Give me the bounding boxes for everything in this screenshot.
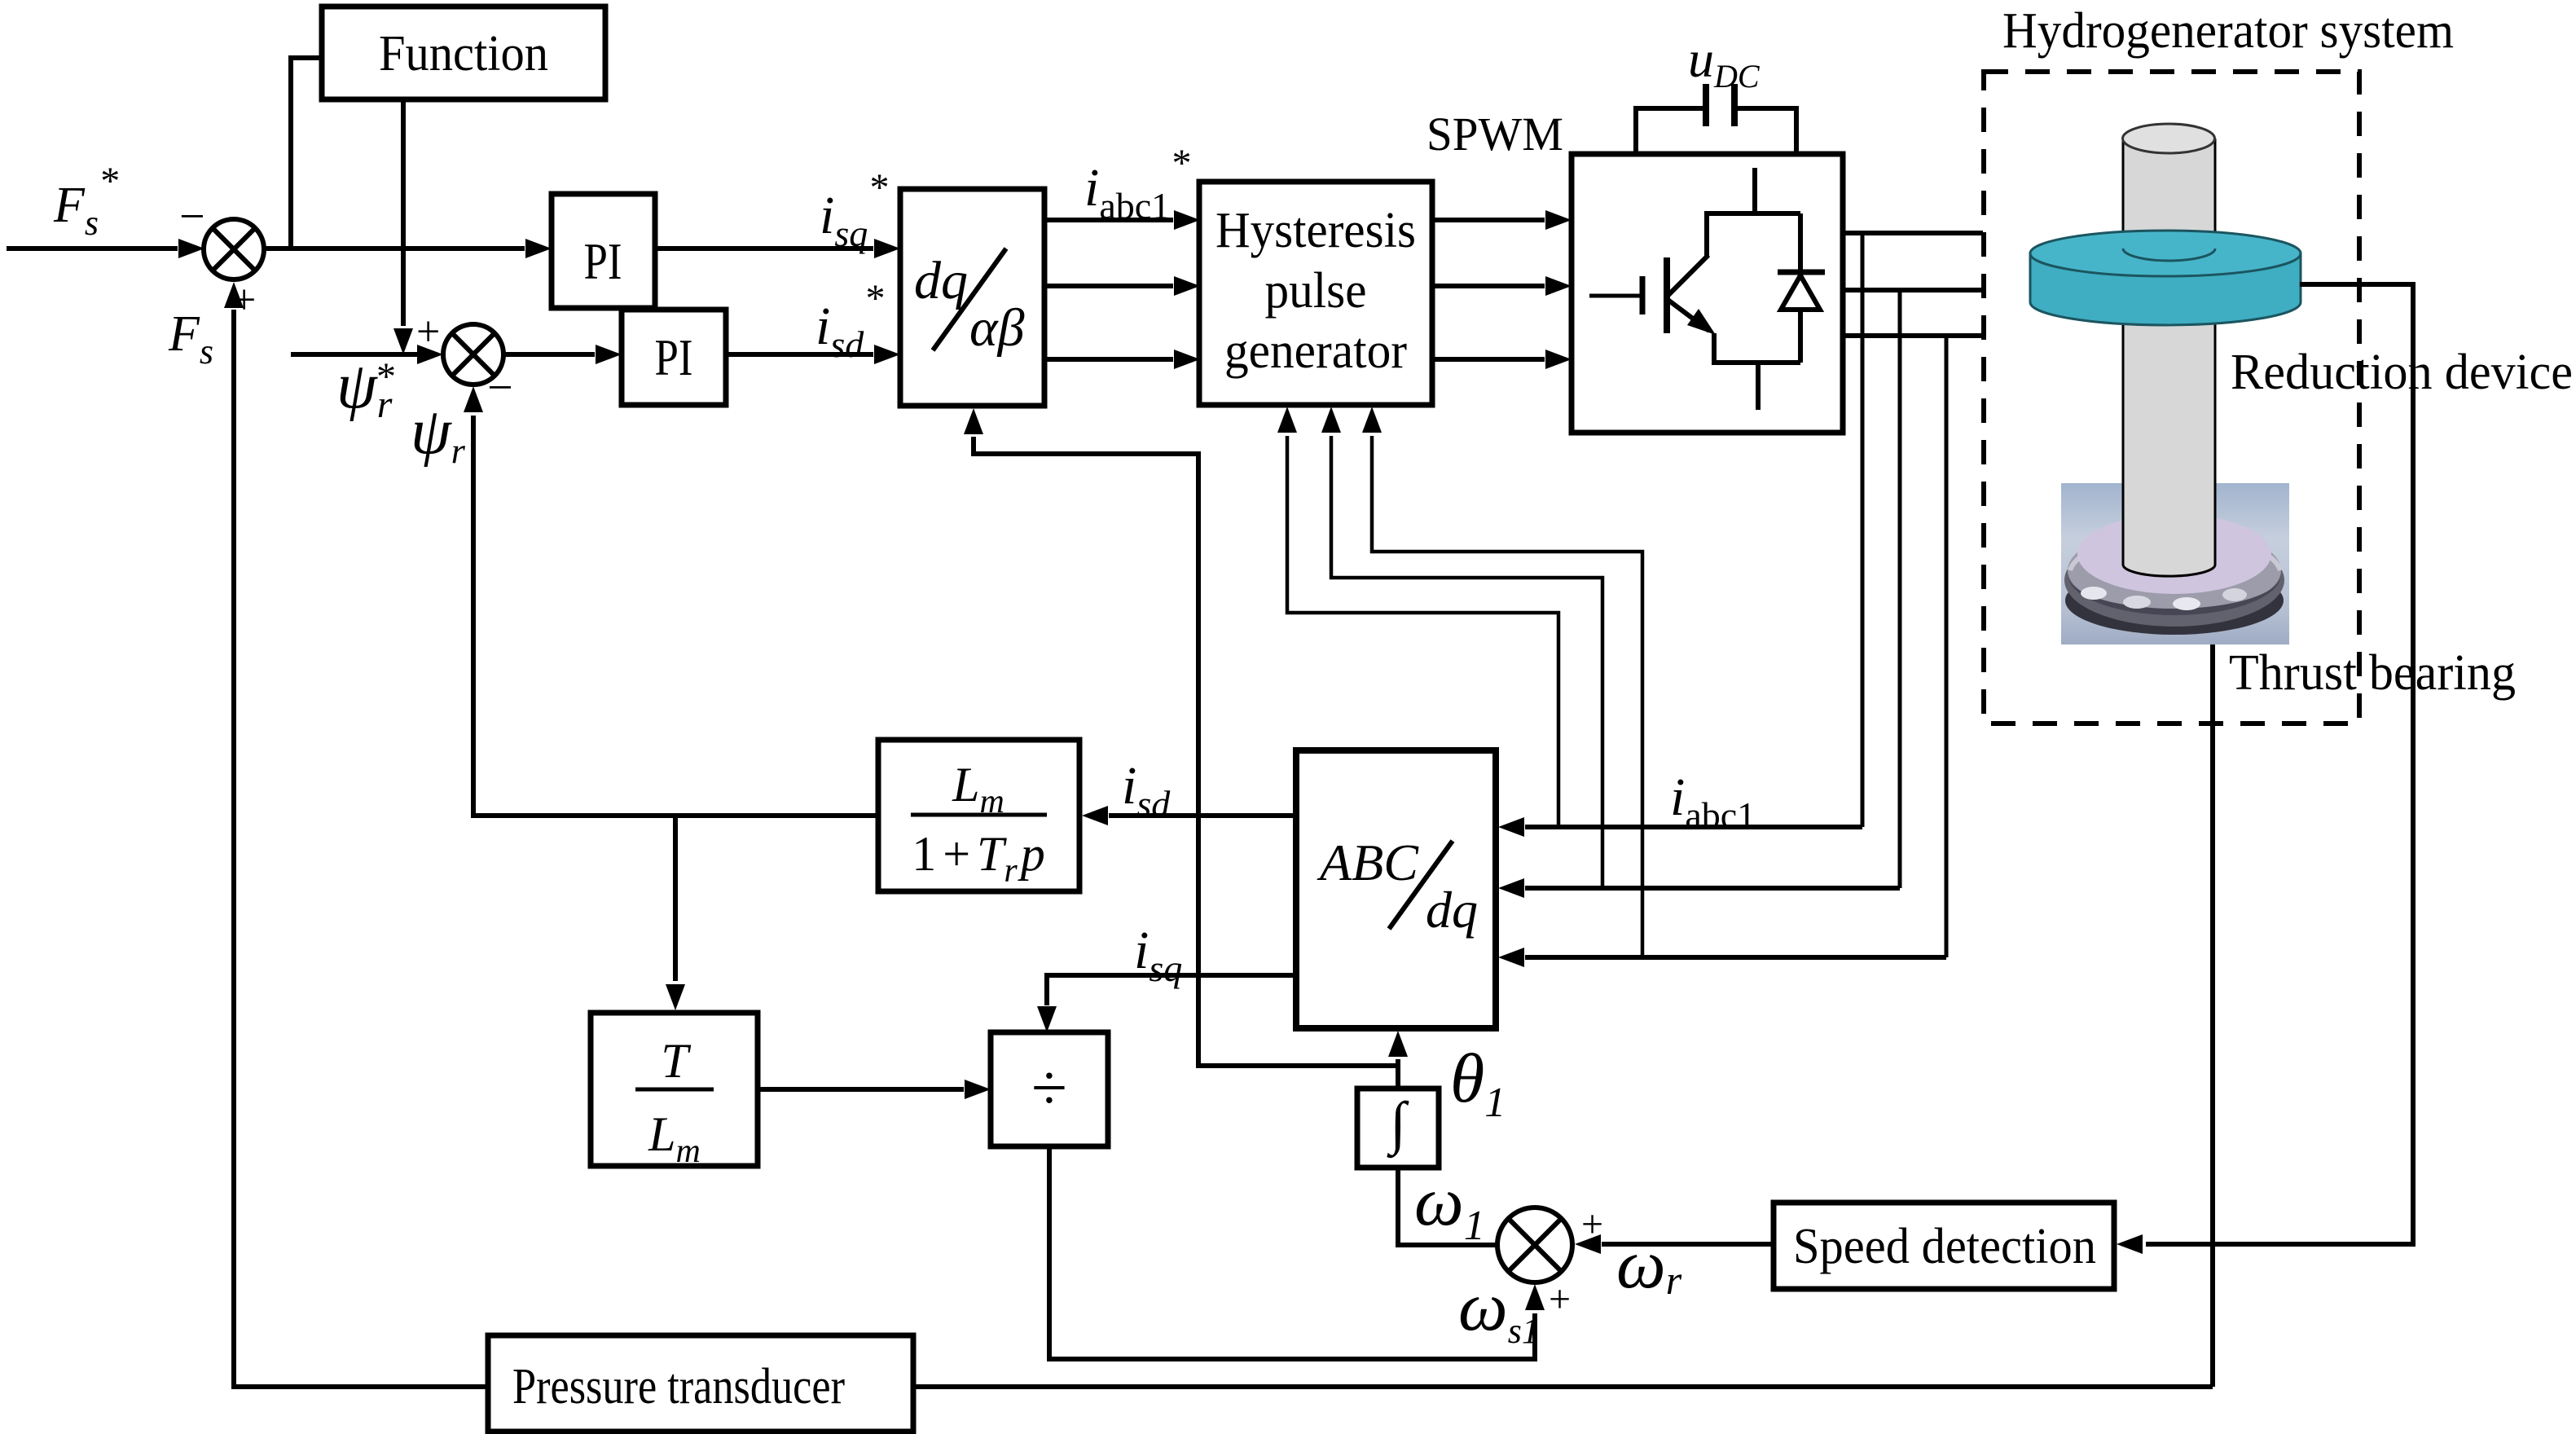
svg-text:pulse: pulse	[1265, 263, 1367, 319]
svg-text:PI: PI	[655, 328, 693, 386]
wire hyst out3	[1432, 357, 1545, 362]
block Speed detection	[1774, 1203, 2114, 1289]
diode D1 bar	[1778, 270, 1825, 275]
transistor IGBT collector diagonal	[1667, 255, 1708, 297]
transistor IGBT collector lead	[1752, 168, 1757, 213]
summing junction S3	[1497, 1207, 1572, 1282]
svg-text:+: +	[416, 309, 440, 355]
svg-text:Thrust bearing: Thrust bearing	[2229, 645, 2516, 701]
svg-text:Reduction device: Reduction device	[2231, 345, 2573, 400]
summing junction S1	[204, 219, 264, 279]
block inverter SPWM	[1572, 154, 1843, 433]
svg-text:Hysteresis: Hysteresis	[1215, 203, 1416, 258]
block Pressure transducer	[488, 1335, 913, 1432]
summing junction S2	[443, 324, 503, 385]
wire theta branch to dq	[974, 437, 1398, 1066]
wire hyst out1	[1432, 218, 1545, 222]
wire psi_r* input	[291, 352, 417, 357]
svg-text:dq: dq	[914, 251, 968, 310]
wire feedback vertical A	[1861, 233, 1865, 827]
svg-text:SPWM: SPWM	[1426, 108, 1563, 161]
wire branch up to Function	[291, 58, 322, 249]
svg-text:+: +	[1549, 1278, 1571, 1321]
wire branch to T/Lm	[673, 816, 678, 981]
wire feedback vertical C	[1945, 336, 1949, 957]
wire integrator to ABC/dq	[1396, 1059, 1400, 1089]
wire dq out3	[1044, 357, 1173, 362]
svg-text:dq: dq	[1426, 881, 1478, 939]
svg-text:1+Trp: 1+Trp	[912, 827, 1045, 890]
svg-text:Function: Function	[379, 26, 548, 81]
block Hysteresis pulse generator	[1199, 182, 1432, 405]
wire inverter out3	[1843, 333, 1983, 338]
shaft cylinder	[2123, 139, 2215, 565]
transistor IGBT emitter diagonal	[1667, 299, 1709, 331]
wire DC left leg	[1636, 108, 1703, 154]
wire hysteresis feedback tap 1	[1287, 436, 1558, 827]
wire dq out2	[1044, 284, 1173, 288]
wire psi_r feedback	[473, 416, 878, 816]
capacitor uDC plate left	[1703, 84, 1709, 126]
wire pressure line left to S1	[234, 310, 488, 1387]
reduction device disk	[2030, 253, 2301, 325]
wire hyst out2	[1432, 284, 1545, 288]
transistor IGBT body bar	[1664, 257, 1670, 333]
wire S1 to PI1	[264, 246, 525, 251]
block ABC/dq	[1296, 750, 1496, 1028]
wire speed detection to S3	[1602, 1242, 1774, 1247]
wire iabc1 feedback 2	[1525, 886, 1900, 891]
wire pressure line right	[913, 1384, 2213, 1389]
wire dq out1	[1044, 218, 1173, 222]
block PI2	[622, 310, 726, 405]
svg-text:÷: ÷	[1031, 1053, 1067, 1124]
wire S2 to PI2	[503, 352, 595, 357]
wire isd to Lm block	[1109, 813, 1296, 818]
capacitor uDC plate right	[1731, 84, 1738, 126]
wire feedback vertical B	[1898, 290, 1902, 888]
transistor IGBT emitter step	[1714, 333, 1800, 363]
diode D1 triangle	[1781, 275, 1820, 310]
svg-text:*: *	[376, 355, 396, 398]
wire disk to speed detection	[2146, 284, 2413, 1244]
wire DC right leg	[1738, 108, 1796, 154]
dashed box hydrogenerator system	[1984, 72, 2359, 724]
wire PI1 to dq (isq*)	[655, 246, 873, 251]
svg-text:Pressure transducer: Pressure transducer	[512, 1359, 845, 1414]
block PI1	[552, 194, 655, 308]
wire T/Lm to divider	[758, 1087, 964, 1092]
block dq/alphabeta	[900, 189, 1044, 406]
svg-text:T: T	[661, 1034, 691, 1088]
wire isq to divider	[1047, 975, 1296, 1005]
wire Function output down	[401, 99, 406, 326]
wire hysteresis feedback tap 3	[1372, 436, 1642, 957]
wire PI2 to dq (isd*)	[726, 352, 873, 357]
wire hysteresis feedback tap 2	[1331, 436, 1602, 888]
transistor IGBT gate lead	[1589, 294, 1642, 298]
diode D1 anode line	[1798, 310, 1803, 363]
block T/Lm	[591, 1013, 758, 1166]
wire iabc1 feedback 3	[1525, 955, 1946, 960]
svg-text:Hydrogenerator system: Hydrogenerator system	[2002, 3, 2454, 59]
wire divider to summer S3	[1049, 1146, 1535, 1359]
wire inverter out1	[1843, 231, 1983, 235]
diode D1 cathode line	[1798, 213, 1803, 271]
block Lm/(1+Trp)	[878, 740, 1079, 891]
wire inverter out2	[1843, 288, 1983, 293]
transistor IGBT gate bar	[1640, 276, 1646, 315]
transistor IGBT collector step	[1707, 213, 1800, 257]
block Function	[322, 7, 605, 99]
block divider	[991, 1032, 1108, 1146]
wire Fs* input	[7, 246, 178, 251]
block integrator	[1357, 1089, 1439, 1168]
wire iabc1 feedback 1	[1525, 825, 1862, 829]
wire thrust bearing down	[2210, 644, 2215, 1387]
svg-text:−: −	[179, 191, 205, 242]
svg-text:−: −	[487, 363, 513, 413]
svg-text:generator: generator	[1224, 323, 1407, 379]
wire inverter bottom lead	[1756, 363, 1761, 410]
wire S3 to integrator	[1398, 1168, 1497, 1245]
svg-text:PI: PI	[584, 232, 622, 290]
svg-text:αβ: αβ	[969, 298, 1025, 358]
svg-text:ABC: ABC	[1317, 834, 1419, 891]
svg-text:Speed detection: Speed detection	[1793, 1219, 2096, 1274]
